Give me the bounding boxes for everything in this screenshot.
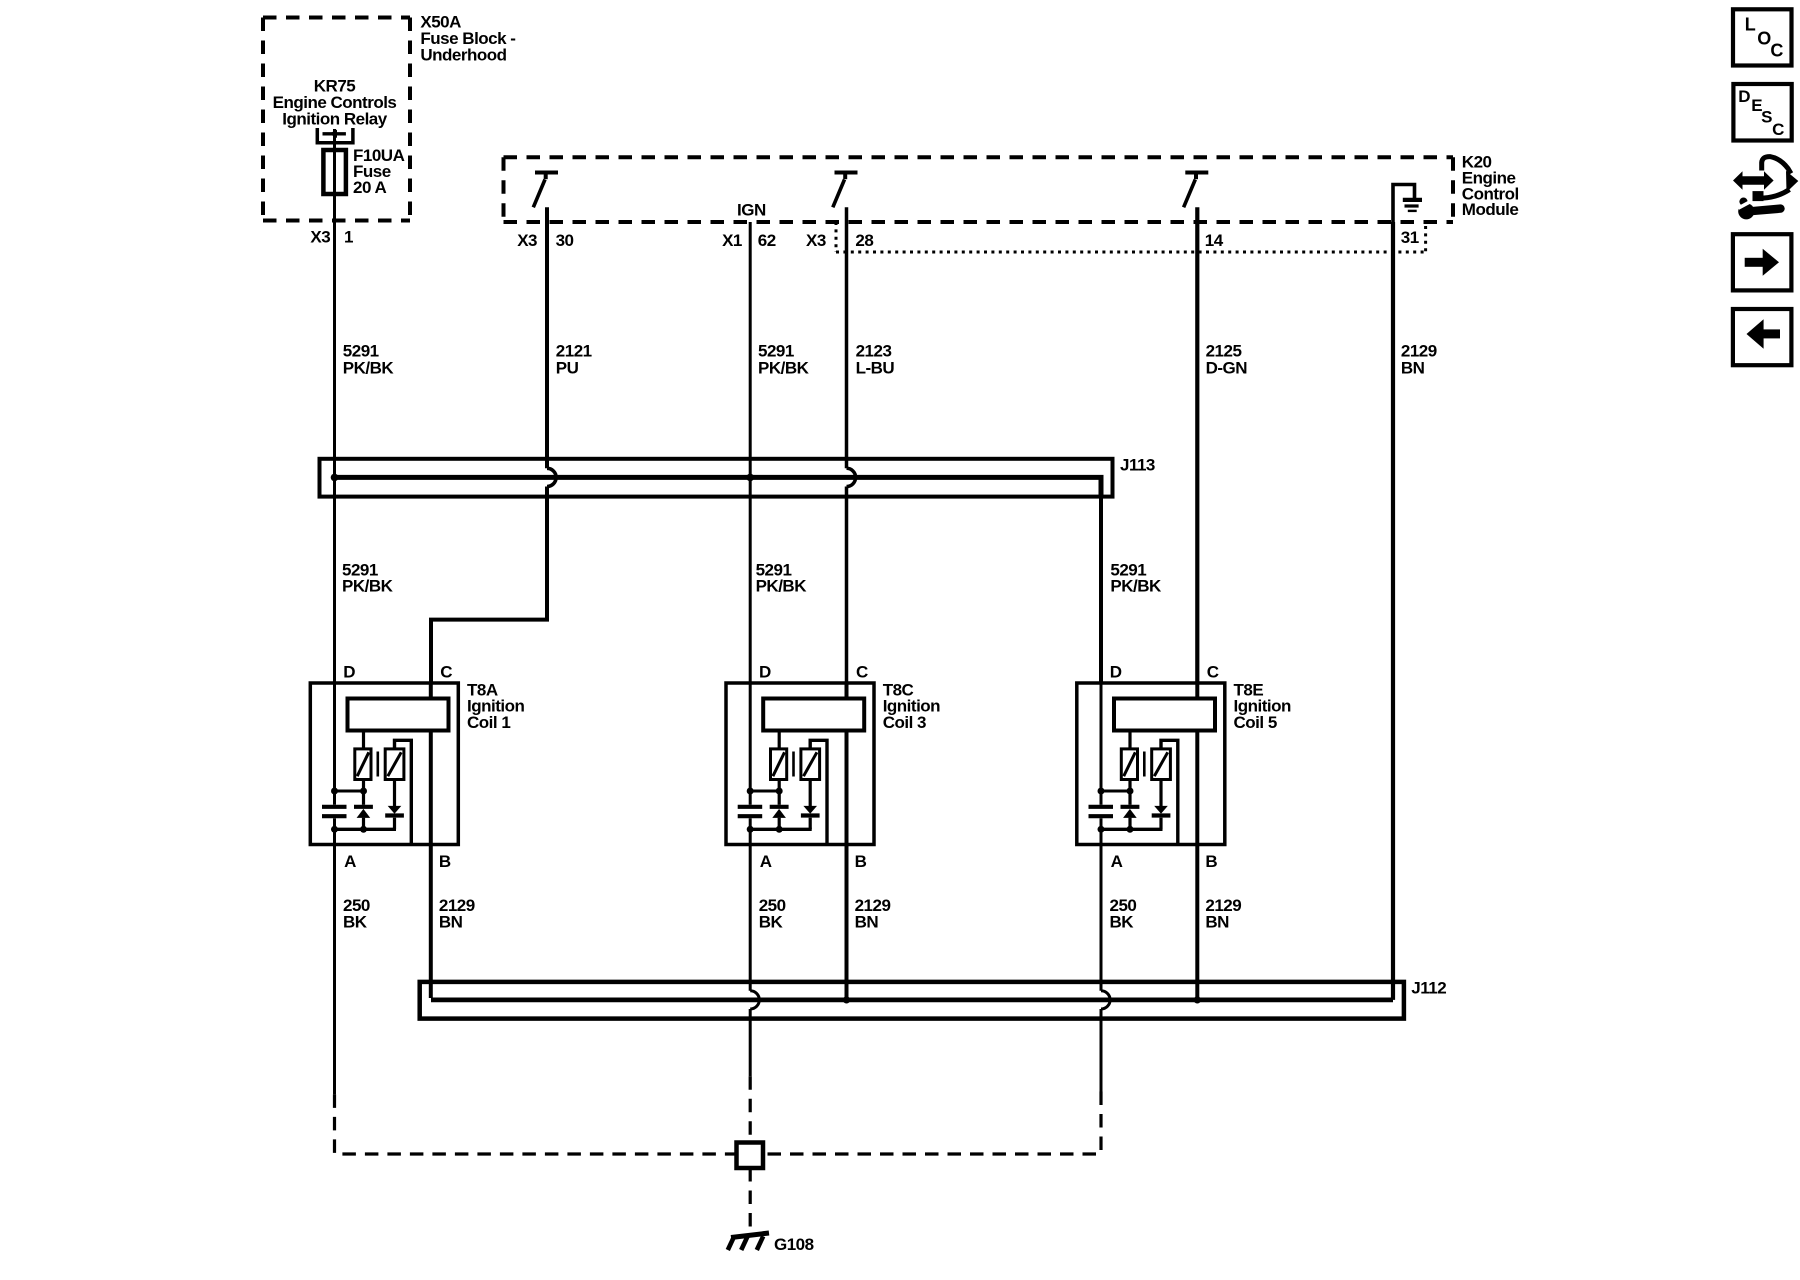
svg-text:PU: PU (556, 358, 579, 377)
svg-text:PK/BK: PK/BK (758, 358, 810, 377)
svg-text:Module: Module (1462, 200, 1519, 219)
svg-text:Coil 1: Coil 1 (467, 713, 510, 732)
svg-text:PK/BK: PK/BK (756, 577, 808, 596)
svg-text:X3: X3 (310, 228, 330, 247)
svg-text:L: L (1745, 15, 1756, 35)
svg-text:X3: X3 (806, 231, 826, 250)
svg-text:D-GN: D-GN (1206, 358, 1248, 377)
svg-text:J113: J113 (1120, 455, 1155, 474)
svg-text:PK/BK: PK/BK (342, 577, 394, 596)
svg-text:S: S (1761, 108, 1772, 127)
svg-text:Coil 5: Coil 5 (1234, 713, 1277, 732)
svg-text:L-BU: L-BU (856, 358, 895, 377)
svg-text:C: C (1772, 120, 1784, 139)
svg-text:D: D (1738, 87, 1750, 106)
svg-text:BN: BN (1401, 358, 1425, 377)
svg-text:31: 31 (1401, 228, 1419, 247)
svg-text:62: 62 (758, 231, 776, 250)
svg-text:Underhood: Underhood (420, 45, 506, 64)
svg-text:X1: X1 (722, 231, 742, 250)
svg-text:28: 28 (855, 231, 873, 250)
svg-text:IGN: IGN (737, 201, 766, 220)
svg-text:1: 1 (344, 228, 353, 247)
svg-text:20 A: 20 A (353, 178, 387, 197)
svg-text:G108: G108 (774, 1235, 814, 1254)
svg-text:PK/BK: PK/BK (343, 358, 395, 377)
svg-text:C: C (1770, 40, 1783, 60)
svg-text:Ignition Relay: Ignition Relay (282, 109, 388, 128)
svg-text:J112: J112 (1411, 978, 1446, 997)
svg-text:PK/BK: PK/BK (1110, 577, 1162, 596)
svg-text:X3: X3 (517, 231, 537, 250)
svg-text:30: 30 (556, 231, 574, 250)
svg-text:14: 14 (1205, 231, 1224, 250)
svg-text:O: O (1757, 29, 1771, 49)
svg-text:Coil 3: Coil 3 (883, 713, 926, 732)
